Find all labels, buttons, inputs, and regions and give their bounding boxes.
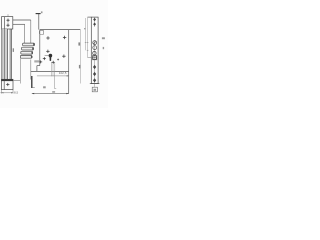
plate width dimension line bbox=[0, 90, 13, 94]
case step edge bbox=[36, 66, 38, 72]
right dim line B bbox=[87, 17, 89, 58]
hole circle 1 bbox=[93, 41, 97, 45]
follower leader bbox=[88, 57, 93, 59]
hole label d5 bbox=[102, 37, 105, 39]
latch diamond 2 bbox=[93, 23, 96, 26]
faceplate main-view right edge upper bbox=[30, 20, 32, 43]
faceplate front view outline bbox=[91, 17, 98, 84]
bottom detail box bbox=[92, 87, 97, 92]
latch screw cross 1 bbox=[6, 19, 9, 22]
dim tick b2 bbox=[87, 49, 89, 51]
dim tick a1 bbox=[85, 42, 87, 44]
latch shaft bottom line bbox=[13, 23, 25, 25]
backset label bbox=[52, 91, 55, 93]
right dim label 2 bbox=[79, 65, 81, 69]
fixing cross A bbox=[46, 36, 49, 39]
follower box bbox=[39, 30, 43, 34]
backset extension below case bbox=[54, 71, 56, 88]
overall depth dimension line bbox=[32, 93, 69, 95]
faceplate side-view strip fill bbox=[2, 29, 8, 79]
case step bbox=[37, 65, 40, 67]
spring leaf 1 bbox=[23, 43, 35, 46]
thin plate line right bbox=[11, 29, 13, 79]
fixing cross B bbox=[63, 36, 66, 39]
hole circle 2 bbox=[93, 46, 97, 50]
latch dim label bbox=[41, 11, 43, 13]
spring leaf 2 bbox=[22, 47, 34, 50]
plate diamond 3 bbox=[93, 65, 96, 69]
thin plate line left bbox=[9, 29, 11, 79]
latch box inner line bbox=[3, 17, 5, 29]
latch diamond 1 bbox=[93, 18, 96, 21]
right vertical dimension line bbox=[79, 30, 81, 84]
faceplate main-view left edge bbox=[19, 59, 21, 84]
faceplate side-view strip right edge bbox=[7, 29, 9, 79]
plate width dim arrows bbox=[1, 92, 13, 93]
bottom detail text bbox=[94, 89, 97, 91]
small mark near plate bbox=[13, 48, 14, 52]
spring leaf 4 notch bbox=[31, 56, 33, 58]
fixing cross D bbox=[62, 55, 65, 58]
spring leaf 3 bbox=[21, 51, 33, 54]
svg-text:102,5: 102,5 bbox=[59, 73, 68, 75]
svg-text:8,5: 8,5 bbox=[14, 90, 19, 94]
spring leaf 3 notch bbox=[31, 52, 33, 54]
deadbolt box inner line bbox=[3, 81, 5, 90]
fixing cross G bbox=[52, 61, 55, 64]
faceplate side-view strip left edge bbox=[1, 29, 3, 79]
deadbolt box thick top bbox=[1, 79, 13, 81]
faceplate top edge extension bbox=[88, 16, 92, 18]
fixing cross F bbox=[39, 60, 42, 63]
background bbox=[0, 0, 108, 108]
plate diamond 5 bbox=[93, 78, 96, 82]
label near left crosses bbox=[34, 60, 39, 62]
latch shaft top line bbox=[13, 19, 31, 21]
small dot H bbox=[57, 59, 59, 61]
faceplate centerline top bbox=[94, 17, 96, 27]
follower square bbox=[93, 56, 97, 60]
follower cross h bbox=[93, 57, 96, 59]
deadbolt head box (side view) bbox=[1, 79, 13, 89]
spring leaf 1 notch bbox=[33, 44, 35, 46]
case bottom edge bbox=[31, 70, 69, 72]
case left edge bbox=[39, 30, 41, 66]
hole label 8 bbox=[103, 47, 104, 49]
guide line bbox=[24, 24, 26, 43]
keyhole leader line bbox=[45, 54, 49, 56]
plate bottom flange bbox=[90, 83, 100, 85]
case depth dim arrows bbox=[67, 75, 69, 76]
right dim line A bbox=[85, 18, 87, 50]
latch bolt head box (side view) bbox=[2, 17, 13, 29]
deadbolt shaft line bbox=[13, 79, 20, 81]
follower circle bbox=[93, 56, 97, 60]
tick mark bbox=[84, 28, 85, 29]
latch box center axis bbox=[7, 19, 9, 28]
keyhole extension lines bbox=[51, 62, 55, 76]
fixing cross E bbox=[43, 57, 46, 60]
dim tick b1 bbox=[87, 42, 89, 44]
plate diamond 4 bbox=[93, 72, 96, 76]
deadbolt screw cross bbox=[6, 83, 9, 86]
faceplate centerline main bbox=[94, 40, 96, 87]
faceplate main-view right edge lower bbox=[30, 60, 32, 80]
bolt dimension label bbox=[43, 86, 46, 88]
spring leaf 4 bbox=[20, 55, 32, 58]
backset hook bbox=[55, 88, 57, 90]
spring leaf 2 notch bbox=[32, 48, 34, 50]
faceplate side-view strip mid line bbox=[3, 29, 5, 79]
plate front thick edge bbox=[31, 76, 33, 88]
latch dim T bar bbox=[36, 13, 41, 15]
small step line bbox=[32, 87, 35, 89]
latch box centerline tick above bbox=[7, 14, 9, 16]
euro cylinder keyhole bbox=[49, 54, 53, 61]
case top edge bbox=[40, 29, 81, 31]
latch screw cross 2 bbox=[6, 24, 9, 27]
right dim label 1 bbox=[78, 42, 80, 45]
case depth dimension line bbox=[37, 75, 69, 77]
case right edge and extension bbox=[68, 30, 70, 94]
latch height dimension bbox=[38, 14, 40, 30]
fixing cross C bbox=[46, 50, 49, 53]
hole circle 3 bbox=[93, 52, 96, 55]
hole circle 1 slash bbox=[93, 41, 96, 44]
overall depth dim arrows bbox=[32, 93, 69, 94]
